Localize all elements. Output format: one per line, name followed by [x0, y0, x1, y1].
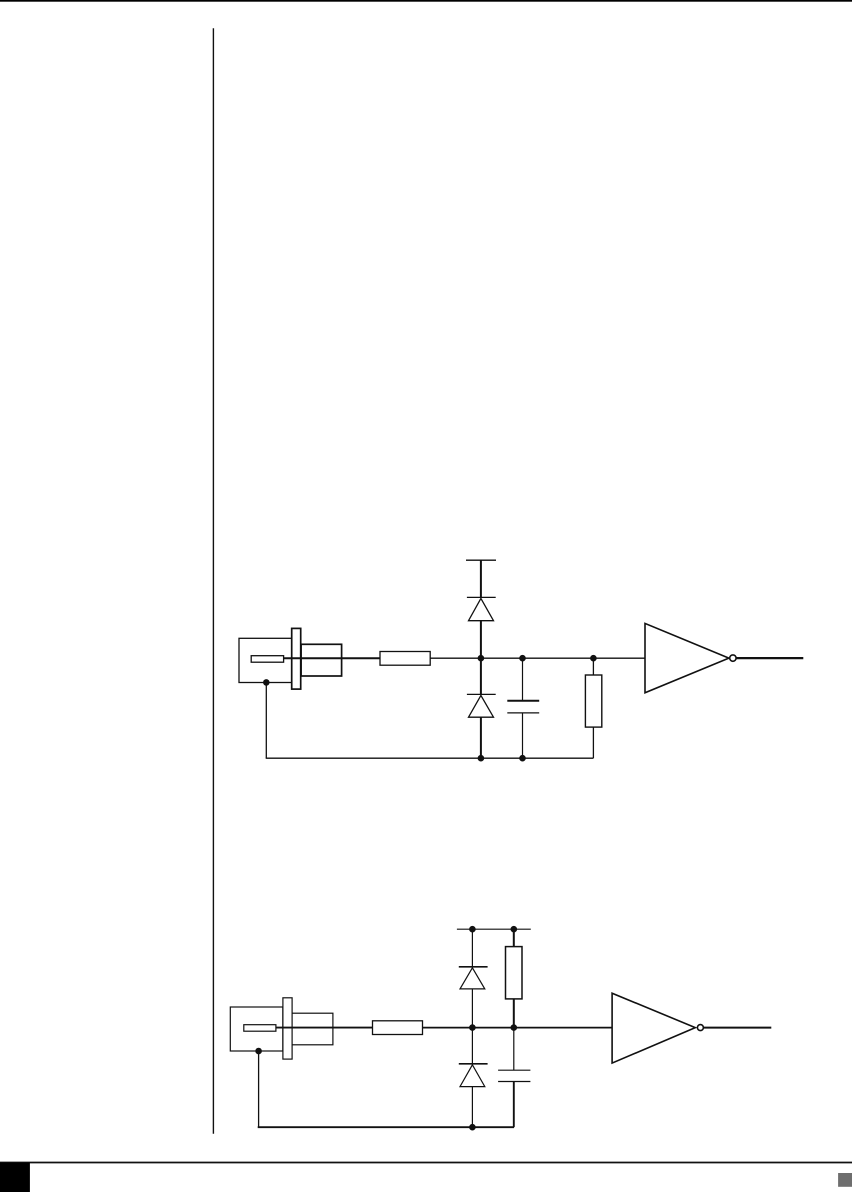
wire R1 to U1 input: [430, 657, 645, 659]
wire input node to R2: [592, 658, 594, 675]
connector J2 center pin: [244, 1025, 276, 1032]
capacitor C2: [498, 1070, 530, 1081]
resistor R3: [373, 1021, 423, 1035]
ground return rail (figure 2): [258, 1126, 514, 1128]
column divider line: [212, 28, 214, 1134]
wire J1 shield down: [265, 682, 267, 758]
wire R4 to input node: [513, 999, 515, 1028]
connector J2 body: [230, 1007, 283, 1051]
wire J2 shield down: [258, 1051, 260, 1127]
wire supply to R4: [513, 929, 515, 946]
wire J1 pin to R1: [284, 657, 380, 659]
supply rail (top of figure 2): [457, 928, 531, 930]
inverter U1: [645, 623, 729, 692]
diode D1: [467, 597, 496, 620]
wire R2 to rail: [592, 727, 594, 758]
node rail/D4 junction: [469, 1124, 476, 1131]
connector J2 barrel: [292, 1013, 333, 1045]
connector J1 flange: [292, 628, 301, 689]
resistor R2: [585, 675, 601, 727]
node supply/D3 junction: [469, 926, 476, 933]
ground return rail (figure 1): [266, 757, 594, 759]
wire input node to D2: [480, 658, 482, 694]
connector J1 center pin: [251, 656, 283, 663]
wire input node to C1: [522, 658, 524, 701]
wire input node to C2: [513, 1028, 515, 1071]
wire U1 output: [736, 657, 803, 659]
diode D4: [459, 1064, 488, 1087]
footer black tab: [0, 1163, 30, 1192]
diode D3: [459, 967, 488, 989]
wire J2 pin to R3: [276, 1027, 373, 1029]
wire supply rail to D1: [480, 560, 482, 597]
wire D2 to rail: [480, 717, 482, 758]
node input/R2 junction: [590, 655, 597, 662]
supply rail (top of figure 1): [466, 559, 496, 561]
node input/diode junction: [478, 655, 485, 662]
wire D1 to input node: [480, 621, 482, 659]
node input/C2 junction: [511, 1024, 518, 1031]
U1 output bubble: [730, 655, 736, 661]
node rail/D2 junction: [478, 755, 485, 762]
wire D4 to rail: [471, 1087, 473, 1128]
node input/C1 junction: [519, 655, 526, 662]
wire C1 to rail: [522, 713, 524, 758]
node rail/C1 junction: [519, 755, 526, 762]
connector J2 flange: [283, 998, 292, 1059]
connector J1 body: [239, 638, 292, 682]
wire supply rail to D3: [471, 929, 473, 967]
top page rule: [0, 0, 852, 2]
inverter U2: [612, 993, 695, 1063]
wire U2 output: [703, 1027, 771, 1029]
U2 output bubble: [697, 1025, 703, 1031]
node J2 shield junction: [255, 1048, 262, 1055]
resistor R1: [380, 652, 430, 666]
connector J1 barrel: [301, 644, 342, 676]
footer rule: [0, 1162, 852, 1164]
capacitor C1: [507, 701, 539, 713]
resistor R4: [506, 947, 523, 999]
diode D2: [467, 694, 496, 717]
node J1 shield junction: [263, 679, 270, 686]
node input/diode junction (fig2): [469, 1024, 476, 1031]
wire D3 to input node: [471, 989, 473, 1064]
wire R3 to U2 input: [423, 1027, 613, 1029]
footer gray tab: [838, 1173, 852, 1187]
node supply/R4 junction: [511, 926, 518, 933]
wire C2 to rail: [513, 1082, 515, 1128]
